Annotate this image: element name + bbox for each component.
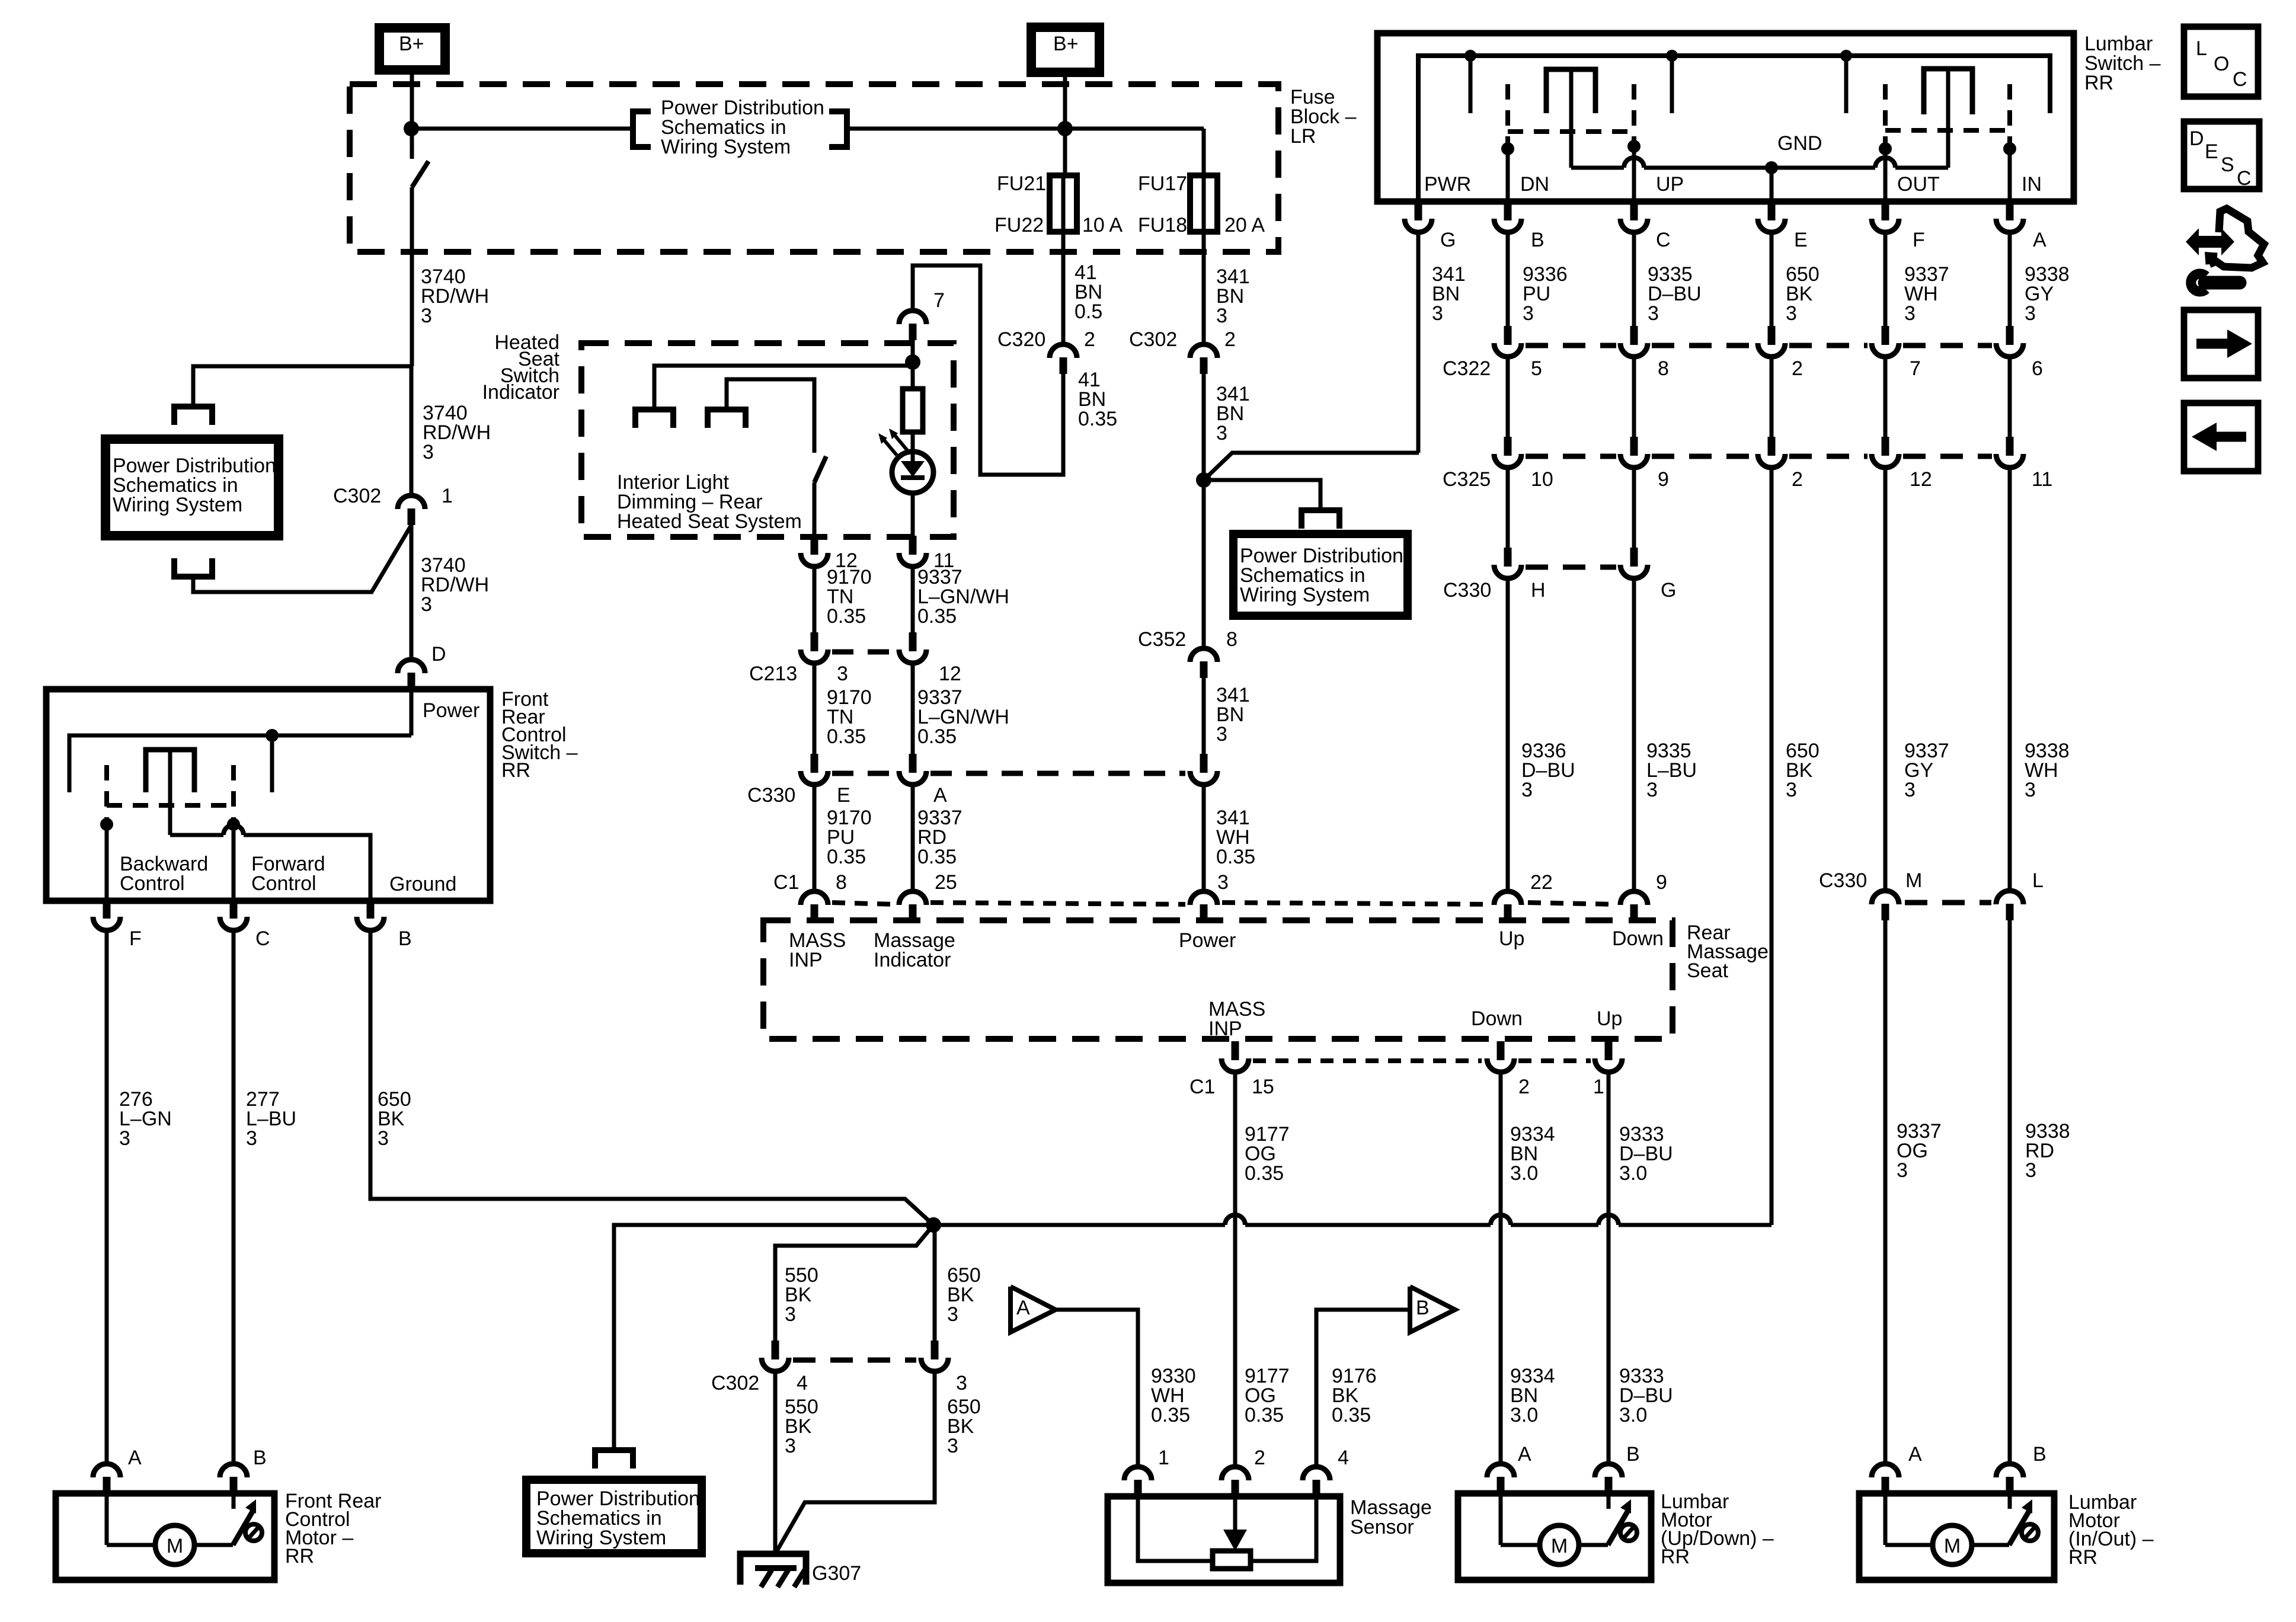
svg-text:3: 3 [1904, 779, 1916, 801]
branch to bottom reference [614, 1225, 933, 1449]
svg-text:22: 22 [1530, 871, 1553, 894]
connector C330 pin L [1996, 891, 2023, 904]
svg-text:G: G [1661, 579, 1676, 602]
svg-text:10: 10 [1531, 468, 1553, 491]
bracket above left reference box [174, 407, 212, 425]
switch blade in fuse block (left) [412, 161, 428, 187]
svg-text:Up: Up [1499, 927, 1524, 950]
svg-text:3: 3 [421, 593, 432, 616]
wire 341 WH 0.35 [1202, 786, 1206, 890]
svg-text:D: D [431, 643, 446, 666]
ground G307 [740, 1554, 806, 1585]
heated seat switch indicator dashed box [581, 343, 954, 537]
IN wire to pin A [2008, 149, 2012, 200]
wire 9335 L-BU 3 [1632, 580, 1636, 889]
wire pin7 to junction [911, 340, 915, 391]
connector C1 pin 2 [1497, 1041, 1505, 1060]
svg-text:Indicator: Indicator [482, 381, 559, 404]
dashed link C1 bottom row [1253, 1058, 1482, 1063]
svg-text:F: F [1913, 229, 1925, 251]
svg-text:M: M [167, 1535, 183, 1557]
connector C325 pin 9 [1630, 437, 1638, 456]
svg-text:E: E [2205, 140, 2218, 163]
massage sensor box [1108, 1496, 1340, 1583]
svg-text:Down: Down [1612, 927, 1664, 950]
svg-text:8: 8 [1226, 628, 1237, 651]
svg-text:Wiring System: Wiring System [1240, 584, 1370, 606]
rocker actuator line [168, 750, 172, 835]
fuse FU21/FU22 10A [1061, 175, 1066, 232]
connector C1 pin 22 [1494, 891, 1521, 905]
svg-text:3: 3 [1216, 305, 1227, 327]
svg-text:E: E [1794, 229, 1808, 251]
battery feed B+ (left) [379, 28, 445, 70]
connector C352 pin 8 [1190, 648, 1217, 662]
svg-text:GND: GND [1777, 132, 1822, 155]
svg-text:0.35: 0.35 [917, 846, 957, 868]
svg-text:L: L [2196, 37, 2207, 60]
DN wire to pin B [1506, 149, 1510, 200]
svg-text:3: 3 [837, 663, 848, 685]
svg-text:L: L [2032, 869, 2044, 892]
LED arrows [881, 437, 897, 455]
battery feed B+ (middle) [1031, 27, 1099, 72]
svg-text:C: C [2237, 167, 2252, 190]
wire 41 BN 0.5 below FU22 [1061, 232, 1066, 344]
dot forward [227, 818, 240, 831]
svg-text:A: A [933, 784, 947, 807]
backward control dashed column [104, 765, 109, 821]
wire 9336 to C330 H [1506, 469, 1510, 548]
bracket [ left of reference text [633, 111, 651, 147]
svg-text:7: 7 [933, 289, 945, 312]
bus dot 3 [1840, 50, 1852, 62]
svg-text:0.35: 0.35 [1216, 846, 1255, 868]
svg-text:3: 3 [785, 1303, 796, 1326]
wire 9337 WH 3 [1884, 233, 1888, 326]
wire 9337 L-GN/WH 0.35 mid [911, 664, 915, 756]
connector C302 pin 2 [1190, 344, 1217, 358]
svg-text:INP: INP [1208, 1018, 1242, 1040]
UP dashed column [1632, 84, 1636, 145]
svg-text:2: 2 [1518, 1076, 1530, 1098]
svg-text:B+: B+ [399, 33, 424, 55]
svg-text:3: 3 [1216, 422, 1227, 444]
branch wire from PWR pin G joining 341 BN junction [1204, 453, 1419, 480]
svg-text:A: A [1016, 1297, 1030, 1319]
svg-text:Wiring System: Wiring System [113, 494, 242, 516]
IN dashed column [2007, 84, 2012, 145]
wire 650 BK 3 long down [1770, 469, 1774, 1225]
svg-text:DN: DN [1520, 173, 1549, 196]
GND wire to pin E [1770, 168, 1774, 200]
svg-text:3: 3 [1786, 302, 1797, 325]
svg-text:20 A: 20 A [1224, 214, 1265, 236]
svg-text:3: 3 [246, 1127, 257, 1150]
connector lumbar UD motor pin A [1487, 1464, 1514, 1477]
reference box: Power Distribution Schematics in Wiring System (left) [105, 439, 279, 536]
svg-text:3.0: 3.0 [1510, 1162, 1538, 1185]
connector pin F [103, 900, 111, 919]
switch blade heated seat switch [814, 456, 826, 482]
svg-text:IN: IN [2022, 173, 2042, 196]
svg-text:11: 11 [2032, 468, 2052, 491]
svg-text:Heated Seat System: Heated Seat System [617, 510, 802, 533]
svg-text:0.35: 0.35 [1332, 1404, 1371, 1426]
svg-text:3: 3 [2025, 1159, 2036, 1182]
svg-text:3.0: 3.0 [1619, 1404, 1647, 1426]
svg-text:G: G [1440, 229, 1456, 251]
svg-text:D: D [2189, 127, 2204, 150]
svg-text:Control: Control [251, 872, 316, 895]
svg-text:0.35: 0.35 [1151, 1404, 1190, 1426]
wire between C322 and C325 [1506, 358, 1510, 437]
svg-text:B: B [253, 1447, 267, 1469]
svg-text:3: 3 [947, 1303, 958, 1326]
triangle reference B [1410, 1287, 1455, 1332]
connector C322 pin 7 [1882, 326, 1889, 345]
svg-text:Seat: Seat [1687, 959, 1728, 982]
connector pin 11 below heated box [909, 536, 917, 555]
branch wire to dimming bracket 2 and switch [727, 379, 814, 453]
svg-text:3: 3 [1904, 302, 1916, 325]
svg-text:3: 3 [947, 1435, 958, 1457]
svg-text:H: H [1531, 579, 1546, 602]
svg-text:C1: C1 [1189, 1076, 1215, 1098]
svg-text:1: 1 [442, 485, 453, 507]
contact line up/down to gnd to in/out [1571, 166, 1624, 170]
svg-text:3: 3 [956, 1372, 967, 1394]
connector pin B lumbar switch [1504, 201, 1512, 220]
branch wire to power distribution reference (middle) [1204, 480, 1320, 510]
svg-text:C352: C352 [1138, 628, 1186, 651]
connector lumbar IO motor pin A [1872, 1464, 1899, 1477]
dashed link C302 bottom [793, 1358, 916, 1363]
svg-text:M: M [1905, 869, 1922, 892]
connector pin 7 heated seat switch indicator [899, 311, 926, 324]
icon arrow left box [2184, 403, 2258, 471]
rocker actuator up/down [1569, 69, 1574, 168]
svg-text:C: C [2233, 68, 2247, 91]
svg-text:2: 2 [1792, 468, 1803, 491]
backward wire to pin F [105, 824, 109, 901]
rocker actuator in/out [1946, 69, 1950, 168]
connector C322 pin 6 [2006, 326, 2014, 345]
svg-text:C: C [1656, 229, 1671, 251]
svg-text:3: 3 [1217, 871, 1229, 894]
connector sensor pin 2 [1221, 1467, 1249, 1480]
svg-text:Up: Up [1597, 1007, 1622, 1030]
wire 341 BN 3 C352 to C330 [1202, 678, 1206, 754]
svg-text:3: 3 [1897, 1159, 1908, 1182]
junction dot 341 BN [1196, 472, 1211, 488]
connector C322 pin 5 [1504, 326, 1512, 345]
forward wire to pin C [232, 824, 236, 901]
wire junction to C302-1 [410, 366, 414, 494]
DN dashed column [1505, 84, 1510, 145]
svg-text:2: 2 [1224, 328, 1236, 351]
connector C213 pin 12 [909, 632, 917, 651]
svg-text:FU21: FU21 [997, 172, 1046, 195]
svg-text:3.0: 3.0 [1619, 1162, 1647, 1185]
svg-text:1: 1 [1158, 1447, 1169, 1469]
svg-text:C330: C330 [1443, 579, 1491, 602]
svg-text:0.35: 0.35 [1078, 408, 1117, 430]
svg-text:A: A [128, 1447, 142, 1469]
dot UP [1627, 140, 1641, 153]
svg-text:Power: Power [1179, 929, 1236, 952]
svg-text:B+: B+ [1053, 33, 1079, 55]
connector motor pin A (front rear) [93, 1464, 120, 1477]
connector C320 pin 2 [1050, 344, 1077, 358]
connector C322 pin 8 [1630, 326, 1638, 345]
wire B+ middle down to FU21 [1063, 72, 1067, 175]
svg-text:12: 12 [1910, 468, 1932, 491]
svg-text:12: 12 [939, 663, 961, 685]
connector C330 pin H [1504, 548, 1512, 567]
wire between C322 and C325 [2008, 358, 2012, 437]
connector C325 pin 12 [1882, 437, 1889, 456]
bracket above bottom reference box [595, 1450, 633, 1469]
svg-text:0.35: 0.35 [917, 725, 957, 748]
connector C302 pin 4 [772, 1341, 779, 1359]
reference box: Power Distribution Schematics in Wiring System (bottom) [526, 1480, 702, 1553]
wire 9337 RD 0.35 lower [911, 786, 915, 890]
svg-text:B: B [2033, 1443, 2046, 1466]
wire between C322 and C325 [1884, 358, 1888, 437]
svg-text:RR: RR [501, 759, 530, 782]
wire 9335 to C330 G [1632, 469, 1636, 548]
svg-text:8: 8 [1658, 357, 1669, 380]
lumbar motor in/out RR box [1859, 1493, 2054, 1580]
svg-text:C: C [255, 927, 270, 950]
svg-text:3: 3 [1648, 302, 1659, 325]
svg-text:0.35: 0.35 [827, 846, 866, 868]
wire 41 BN 0.35 C320 to heated seat indicator pin 7 [913, 265, 1063, 475]
wire 3740 RD/WH 3 C302-1 down to D [410, 525, 414, 658]
wire 9170 TN 0.35 upper [813, 568, 817, 635]
bus stub 3 [1844, 56, 1849, 113]
svg-text:0.35: 0.35 [1245, 1162, 1284, 1185]
svg-text:3: 3 [785, 1435, 796, 1457]
svg-text:B: B [1531, 229, 1544, 251]
bracket interior light dimming 1 [635, 410, 673, 428]
bus dot 2 [1666, 50, 1678, 62]
wire 276 L-GN 3 [105, 932, 109, 1461]
junction dot power rail [266, 729, 279, 742]
svg-text:C1: C1 [773, 871, 799, 894]
branch 550 BK [775, 1225, 933, 1341]
svg-text:5: 5 [1531, 357, 1542, 380]
wire 341 BN 3 C302-2 down to junction [1202, 374, 1206, 647]
dashed link C322 [1526, 343, 1616, 348]
wire 9337 down to C330 M [1884, 469, 1888, 889]
svg-text:3: 3 [1646, 779, 1658, 801]
connector C330 pin E [811, 754, 818, 773]
svg-text:3.0: 3.0 [1510, 1404, 1538, 1426]
svg-text:2: 2 [1792, 357, 1803, 380]
dashed link C330 H-G [1526, 565, 1616, 570]
wire 9338 GY 3 [2008, 233, 2012, 326]
connector C1 pin 8 [801, 891, 828, 905]
svg-text:25: 25 [935, 871, 957, 894]
bus dot 1 [1464, 50, 1476, 62]
svg-text:0.5: 0.5 [1075, 300, 1102, 323]
svg-text:E: E [837, 784, 850, 807]
wire 9336 PU 3 [1506, 233, 1510, 326]
dashed link DN/UP [1508, 129, 1634, 134]
svg-text:3: 3 [2025, 779, 2036, 801]
svg-text:UP: UP [1656, 173, 1684, 196]
svg-text:0.35: 0.35 [827, 605, 866, 628]
svg-text:3: 3 [423, 441, 434, 463]
bracket above middle reference box [1302, 510, 1339, 529]
wire between C322 and C325 [1632, 358, 1636, 437]
svg-text:M: M [1551, 1535, 1568, 1557]
dashed link C1 top row [832, 903, 895, 904]
svg-text:2: 2 [1084, 328, 1095, 351]
front rear control switch box [46, 689, 490, 901]
svg-text:Down: Down [1471, 1007, 1523, 1030]
connector pin C [230, 900, 238, 919]
svg-text:A: A [1908, 1443, 1922, 1466]
connector sensor pin 1 [1124, 1467, 1152, 1480]
svg-text:3: 3 [119, 1127, 130, 1150]
wire reference bracket to FU17 drop [847, 127, 1204, 131]
wire 650 BK to C302-3 [933, 1225, 937, 1341]
svg-text:A: A [1518, 1443, 1531, 1466]
svg-text:3: 3 [421, 305, 432, 327]
connector pin E lumbar switch [1768, 201, 1776, 220]
icon DESC box [2184, 121, 2259, 189]
svg-text:4: 4 [797, 1372, 808, 1394]
bracket below left reference box [174, 558, 212, 577]
svg-text:LR: LR [1290, 125, 1316, 148]
bus stub 2 [1670, 56, 1674, 113]
svg-text:G307: G307 [812, 1562, 861, 1585]
svg-text:3: 3 [378, 1127, 389, 1150]
rear massage seat dashed box [763, 920, 1673, 1039]
wire 277 L-BU 3 [232, 932, 236, 1461]
connector pin F lumbar switch [1882, 201, 1889, 220]
internal feed bus [1418, 56, 2050, 200]
reference box: Power Distribution Schematics in Wiring System (middle) [1233, 534, 1408, 616]
connector C302 pin 3 [931, 1341, 939, 1359]
bracket ] right of reference text [829, 111, 847, 147]
wire 341 BN 3 below FU18 [1202, 232, 1206, 344]
connector C330 (power col) [1200, 754, 1208, 773]
svg-text:Control: Control [120, 872, 185, 895]
wire 9338 down to C330 L [2008, 469, 2012, 889]
wire 9337 L-GN/WH 0.35 upper [911, 568, 915, 635]
svg-text:3: 3 [1432, 302, 1443, 325]
svg-text:7: 7 [1910, 357, 1921, 380]
connector lumbar UD motor pin B [1595, 1464, 1622, 1477]
sensor resistive element [1213, 1551, 1251, 1569]
bus stub 1 [1469, 56, 1473, 113]
svg-text:C330: C330 [747, 784, 795, 807]
wire 550 BK 3 to ground [773, 1373, 778, 1554]
svg-text:15: 15 [1252, 1076, 1274, 1098]
branch wire to dimming bracket 1 [654, 366, 913, 410]
wire to power distribution reference bracket [411, 127, 632, 131]
connector motor pin B (front rear) [220, 1464, 247, 1477]
wire 650 BK 3 (pin E) [1770, 233, 1774, 326]
icon arrow right box [2184, 310, 2258, 378]
svg-text:3: 3 [1786, 779, 1797, 801]
svg-text:Power: Power [423, 699, 479, 722]
dot DN [1501, 142, 1514, 155]
connector sensor pin 4 [1303, 1467, 1330, 1480]
wire 650 BK 3 from ground pin [370, 932, 933, 1225]
svg-text:INP: INP [789, 949, 823, 971]
OUT dashed column [1883, 84, 1888, 145]
OUT wire to pin F [1884, 149, 1888, 200]
svg-text:C320: C320 [997, 328, 1045, 351]
lumbar motor up/down RR box [1458, 1493, 1651, 1580]
svg-text:C330: C330 [1819, 869, 1867, 892]
power rail inside switch [69, 735, 411, 792]
connector C1 pin 9 [1620, 891, 1648, 905]
dot IN [2003, 142, 2016, 155]
svg-text:C302: C302 [333, 485, 381, 507]
svg-text:FU22: FU22 [994, 214, 1044, 236]
wire 9177 OG 0.35 [1233, 1073, 1237, 1464]
dashed link C213 [832, 650, 895, 655]
lumbar switch RR box [1377, 33, 2074, 201]
connector C1 pin 1 [1605, 1041, 1613, 1060]
icon schematic arrow with wrench [2209, 209, 2264, 268]
dashed link C325 [1526, 454, 1616, 459]
svg-text:3: 3 [1216, 723, 1227, 746]
sensor wiper arrow [1233, 1496, 1237, 1535]
connector C322 pin 2 [1768, 326, 1776, 345]
switch rocker symbol [146, 750, 194, 792]
connector C1 pin 3 [1190, 891, 1217, 905]
wire 9337 OG 3 [1884, 920, 1888, 1461]
connector D of front rear control switch [398, 660, 425, 673]
wire switch to junction [410, 187, 414, 366]
connector C325 pin 11 [2006, 437, 2014, 456]
wire left reference box loop to C302-1 [193, 525, 411, 592]
rocker symbol in/out [1924, 69, 1972, 114]
connector pin G lumbar switch [1415, 201, 1422, 220]
forward control dashed column [231, 765, 236, 821]
front rear control motor RR box [56, 1493, 274, 1580]
triangle reference A [1011, 1287, 1056, 1332]
UP wire to pin C [1632, 146, 1636, 200]
fuse block FU-LR dashed outline [350, 84, 1278, 252]
wire 650 BK 3 to ground [775, 1373, 935, 1554]
svg-text:B: B [398, 927, 412, 950]
svg-text:RR: RR [1661, 1546, 1690, 1568]
svg-text:C302: C302 [1129, 328, 1177, 351]
wire 9338 RD 3 [2008, 920, 2012, 1461]
stub from power rail [270, 735, 274, 792]
connector C325 pin 10 [1504, 437, 1512, 456]
svg-text:Indicator: Indicator [874, 949, 951, 971]
svg-text:Sensor: Sensor [1350, 1516, 1414, 1538]
svg-text:3: 3 [2025, 302, 2036, 325]
resistor of indicator [911, 391, 915, 452]
dot backward [100, 818, 113, 831]
svg-text:PWR: PWR [1424, 173, 1471, 196]
connector C1 pin 15 [1232, 1041, 1239, 1060]
sensor internal wiring [1138, 1496, 1210, 1561]
svg-text:A: A [2033, 229, 2046, 251]
svg-text:2: 2 [1254, 1447, 1265, 1469]
bracket interior light dimming 2 [708, 410, 746, 428]
